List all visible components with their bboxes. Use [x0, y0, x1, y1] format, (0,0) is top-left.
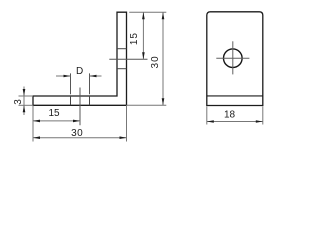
dimension 3: top arrowhead: [23, 89, 26, 96]
svg-text:30: 30: [71, 128, 83, 139]
L-bracket side view outline: [33, 12, 127, 105]
svg-text:18: 18: [224, 110, 236, 121]
hole edge line (vertical leg, bottom): [117, 68, 127, 70]
dimension 15 right: top arrowhead: [142, 12, 145, 19]
dimension 15 bottom: dimension line: [33, 120, 80, 122]
extension line bottom edge rightwards (for right-side 30 dim): [127, 104, 167, 106]
dimension D: dimension line segments: [56, 75, 71, 77]
hole centerline vertical (front view): [232, 41, 234, 74]
dimension 30 bottom: dimension line: [33, 137, 127, 139]
front view bend line: [207, 95, 263, 97]
dimension 3: bottom arrowhead: [23, 105, 26, 112]
svg-text:30: 30: [150, 55, 161, 68]
svg-text:15: 15: [129, 32, 140, 45]
hole centerline horizontal (front view): [216, 57, 249, 59]
svg-text:15: 15: [48, 108, 60, 119]
dimension 18: left arrowhead: [207, 120, 214, 123]
dimension 30 bottom: left arrowhead: [33, 136, 40, 139]
dimension 3: extension lines: [19, 95, 34, 97]
extension line left edge (for 15 and 30 bottom dims): [32, 105, 34, 141]
dimension 3: dimension line: [23, 87, 25, 116]
dimension 15 right: dimension line: [142, 12, 144, 59]
hole edge line (vertical leg, top): [117, 48, 127, 50]
hole circle front view: [224, 49, 243, 68]
dimension 15 bottom: left arrowhead: [33, 120, 40, 123]
extension line top edge rightwards (for right-side dims): [129, 11, 166, 13]
hole edge line through horizontal leg, left: [70, 96, 72, 105]
dimension 18: extension lines: [206, 106, 208, 124]
dimension 18: dimension line: [207, 121, 263, 123]
hole edge extension stub right (D dimension): [89, 73, 91, 94]
dimension 30 right: top arrowhead: [162, 12, 165, 19]
dimension D: left arrowhead: [64, 75, 71, 78]
hole centerline (vertical leg, horizontal): [109, 58, 147, 60]
dimension 18: right arrowhead: [256, 120, 263, 123]
dimension 30 right: bottom arrowhead: [162, 98, 165, 105]
dimension 15 bottom: right arrowhead: [73, 120, 80, 123]
svg-text:3: 3: [13, 99, 24, 105]
dimension 30 right: dimension line: [162, 12, 164, 105]
dimension 15 right: bottom arrowhead: [142, 52, 145, 59]
dimension D: right arrowhead: [90, 75, 97, 78]
extension line right edge of leg down (for 30 bottom dim): [126, 105, 128, 141]
hole centerline (horizontal leg, vertical): [79, 88, 81, 126]
dimension 30 bottom: right arrowhead: [120, 136, 127, 139]
hole edge line through horizontal leg, right: [89, 96, 91, 105]
hole edge extension stub left (D dimension): [70, 73, 72, 94]
svg-text:D: D: [76, 66, 83, 77]
front view plate outline (rounded top corners): [207, 12, 263, 106]
